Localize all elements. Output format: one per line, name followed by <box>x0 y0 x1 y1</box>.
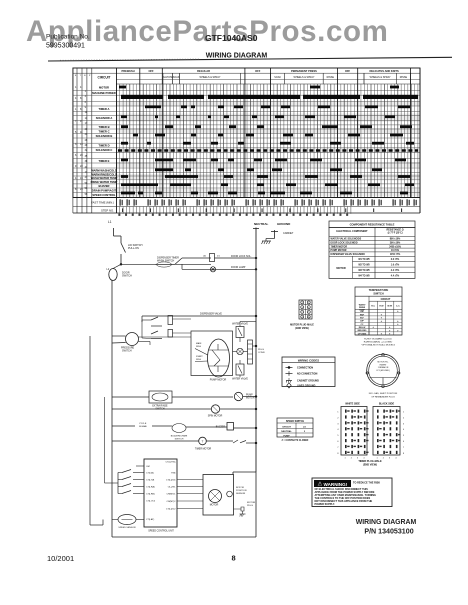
svg-text:NEUTRAL: NEUTRAL <box>281 430 292 433</box>
extra rinse switch <box>112 396 149 398</box>
neutral jog <box>233 471 256 473</box>
svg-text:CONN: CONN <box>258 352 265 354</box>
svg-text:EXTRA RINSE: EXTRA RINSE <box>152 405 168 408</box>
aux circle <box>237 348 243 354</box>
svg-text:4: 4 <box>308 307 309 309</box>
svg-text:SPEED CONTROL UNIT: SPEED CONTROL UNIT <box>148 531 174 533</box>
svg-text:W3 TO W5: W3 TO W5 <box>358 270 370 272</box>
svg-text:3: 3 <box>302 307 303 309</box>
secondary left bus <box>89 336 91 525</box>
wire main horizontal <box>121 263 211 265</box>
svg-text:7: 7 <box>302 316 303 318</box>
svg-text:1 BREAK IN: 1 BREAK IN <box>378 366 389 369</box>
svg-text:GTF1040AS0: GTF1040AS0 <box>205 33 258 43</box>
svg-text:WHEELS & SPRAY: WHEELS & SPRAY <box>199 76 220 79</box>
timer contacts <box>151 317 158 320</box>
junction L1/lid <box>120 263 122 265</box>
svg-text:WIRING DIAGRAM: WIRING DIAGRAM <box>206 53 268 60</box>
page rule <box>48 57 452 61</box>
svg-text:SPEED SENSOR: SPEED SENSOR <box>118 527 136 529</box>
svg-text:LINES GROUND: LINES GROUND <box>297 385 316 388</box>
svg-text:NEUTRAL: NEUTRAL <box>254 222 268 226</box>
svg-text:SPEED SWITCH: SPEED SWITCH <box>286 420 304 423</box>
svg-text:DISPENSER VALVE: DISPENSER VALVE <box>200 313 222 316</box>
speed sensor <box>118 515 136 525</box>
speed selector switches <box>113 264 115 495</box>
svg-text:POSITION: POSITION <box>236 490 247 492</box>
lid switch <box>121 243 126 253</box>
svg-text:MOTOR: MOTOR <box>246 398 255 400</box>
svg-text:R=REGULAR(S) +=CLOSED: R=REGULAR(S) +=CLOSED <box>364 341 393 344</box>
svg-text:LP1 (MOLDED): LP1 (MOLDED) <box>376 370 390 372</box>
timer motor <box>112 440 199 442</box>
fast time row <box>73 197 420 199</box>
svg-text:W2 TO W5: W2 TO W5 <box>358 265 370 267</box>
svg-text:POWER SUPPLY.: POWER SUPPLY. <box>315 503 336 506</box>
svg-text:CR(MT)1: CR(MT)1 <box>167 494 177 496</box>
svg-text:W-W: W-W <box>387 306 392 308</box>
svg-text:5: 5 <box>302 312 303 314</box>
chime switch <box>112 425 135 427</box>
svg-text:MOTOR: MOTOR <box>247 502 256 504</box>
svg-text:SOLENOID B: SOLENOID B <box>96 134 113 138</box>
svg-text:SPEED CONTROL: SPEED CONTROL <box>92 193 116 197</box>
svg-text:6: 6 <box>308 312 309 314</box>
svg-text:CIRCUIT: CIRCUIT <box>282 426 292 428</box>
svg-text:WHITE SIDE: WHITE SIDE <box>345 403 360 406</box>
pressure switch <box>126 333 139 346</box>
svg-text:SWITCH: SWITCH <box>175 438 184 440</box>
svg-text:FAST TIME (MIN.): FAST TIME (MIN.) <box>91 201 114 205</box>
svg-text:TEMPERATURE: TEMPERATURE <box>369 288 389 292</box>
svg-text:H-C: H-C <box>371 306 375 308</box>
svg-text:CT(LRA): CT(LRA) <box>146 486 155 489</box>
svg-text:SOLENOID C: SOLENOID C <box>96 148 113 152</box>
svg-text:C-C: C-C <box>396 306 400 308</box>
svg-text:SOAK: SOAK <box>173 76 180 79</box>
motor plug circular view <box>367 354 400 387</box>
door lock solenoid <box>210 254 215 262</box>
svg-text:H-W: H-W <box>379 306 383 308</box>
svg-text:WDG: WDG <box>196 346 201 348</box>
svg-text:TIMER D: TIMER D <box>98 144 109 148</box>
svg-text:TIMER E: TIMER E <box>99 159 110 163</box>
svg-text:NO LOAD, SHIFT POSITION: NO LOAD, SHIFT POSITION <box>369 392 398 395</box>
svg-text:SPIN MOTOR: SPIN MOTOR <box>208 416 223 418</box>
svg-text:OL-(P)1: OL-(P)1 <box>168 487 177 489</box>
timer line switch <box>233 440 238 443</box>
svg-text:COMPONENT RESISTANCE TABLE: COMPONENT RESISTANCE TABLE <box>350 223 395 227</box>
svg-text:ELECTRICAL COMPONENT: ELECTRICAL COMPONENT <box>336 230 368 233</box>
svg-text:TO REDUCE THE RISK: TO REDUCE THE RISK <box>353 482 380 485</box>
svg-text:WIRING CODES: WIRING CODES <box>298 358 319 362</box>
left column rules <box>72 68 74 213</box>
shading bands <box>116 102 420 107</box>
speed switch table <box>277 418 313 437</box>
legend no connection <box>286 373 293 375</box>
svg-text:PUMP MOTOR: PUMP MOTOR <box>210 379 227 382</box>
pump motor assembly box <box>191 331 233 376</box>
svg-text:WIRING DIAGRAM: WIRING DIAGRAM <box>356 519 417 526</box>
svg-text:BUZZER/CHIME: BUZZER/CHIME <box>171 436 188 438</box>
svg-text:CABINET: CABINET <box>283 232 294 235</box>
svg-text:CT(L)TMa: CT(L)TMa <box>166 462 177 464</box>
svg-text:OFF: OFF <box>345 69 351 73</box>
neutral bus <box>255 228 257 473</box>
pump motor circle <box>234 392 242 400</box>
door switch <box>109 269 117 281</box>
table row labels <box>73 90 420 92</box>
svg-text:CT(L)(T)2: CT(L)(T)2 <box>166 509 176 511</box>
cam marks <box>121 95 163 99</box>
svg-text:10/2001: 10/2001 <box>47 554 74 563</box>
svg-text:3.6 ±7%: 3.6 ±7% <box>391 259 399 261</box>
svg-text:CT(LOO): CT(LOO) <box>146 501 155 503</box>
step number ticks <box>119 207 121 214</box>
dispenser valve wire <box>142 315 256 317</box>
svg-text:CT(L)(T)b: CT(L)(T)b <box>166 480 176 482</box>
pump motor winding <box>208 339 230 377</box>
warning box <box>312 478 392 507</box>
svg-text:MOTOR: MOTOR <box>210 505 219 507</box>
svg-text:RINSE: RINSE <box>400 76 408 79</box>
svg-text:MACHINE POWER: MACHINE POWER <box>92 91 116 95</box>
speed control unit <box>144 459 177 527</box>
svg-text:OFF: OFF <box>148 69 154 73</box>
door lamp <box>182 268 256 270</box>
svg-text:NO CONNECTION: NO CONNECTION <box>297 373 318 376</box>
svg-text:AGITATE: AGITATE <box>163 76 173 79</box>
timer sequence chart <box>73 68 420 198</box>
svg-text:CONNECTION: CONNECTION <box>297 367 313 370</box>
svg-text:PREWASH: PREWASH <box>122 69 135 73</box>
svg-text:CIRCUIT: CIRCUIT <box>381 298 391 301</box>
svg-text:PULL-ON: PULL-ON <box>128 247 139 250</box>
svg-text:OM: OM <box>146 466 150 468</box>
svg-text:DRAIN PUMP/AGIT: DRAIN PUMP/AGIT <box>92 188 117 192</box>
svg-text:(END VIEW): (END VIEW) <box>295 327 309 330</box>
svg-text:@ 77°F (25°C): @ 77°F (25°C) <box>387 233 402 235</box>
temperature switch table <box>355 287 402 335</box>
dashed cam row <box>118 149 418 152</box>
svg-text:CT(LT)B: CT(LT)B <box>146 480 155 482</box>
svg-text:OFF: OFF <box>255 69 261 73</box>
bottom wire <box>112 536 256 538</box>
svg-text:WARNING!: WARNING! <box>324 482 348 487</box>
svg-text:1: 1 <box>302 302 303 304</box>
wire L1 lead <box>113 228 115 236</box>
drive motor box <box>203 475 234 516</box>
svg-text:SWITCH: SWITCH <box>122 350 132 353</box>
legend connection <box>286 367 293 369</box>
buzzer <box>227 423 234 431</box>
svg-text:4.4 ±7%: 4.4 ±7% <box>391 275 399 278</box>
svg-text:CABINET GROUND: CABINET GROUND <box>297 379 319 382</box>
fast time ticks <box>120 199 121 205</box>
svg-text:BUZZER: BUZZER <box>99 184 110 188</box>
svg-text:OF REMAINDER PLUG: OF REMAINDER PLUG <box>371 395 395 398</box>
svg-text:P/N 134053100: P/N 134053100 <box>364 528 413 536</box>
svg-text:RESISTANCE Ω: RESISTANCE Ω <box>386 229 403 232</box>
svg-text:SIGNAL: SIGNAL <box>139 425 148 428</box>
svg-text:WDG: WDG <box>196 359 201 361</box>
legend cabinet ground <box>286 380 292 382</box>
svg-text:8: 8 <box>308 316 309 318</box>
svg-text:SWITCH: SWITCH <box>122 275 132 278</box>
svg-text:PLUG: PLUG <box>258 349 264 351</box>
svg-text:GROUND: GROUND <box>277 222 291 226</box>
svg-text:MOTOR: MOTOR <box>99 85 109 89</box>
svg-text:WARM WASH/COLD: WARM WASH/COLD <box>91 168 117 172</box>
svg-text:CT(LRB): CT(LRB) <box>146 494 155 496</box>
svg-text:DOOR LAMP: DOOR LAMP <box>231 266 246 269</box>
svg-text:CT(O)A: CT(O)A <box>146 472 154 475</box>
neutral lower segment <box>255 472 257 537</box>
wire door lock <box>182 257 211 259</box>
svg-text:DISPENSER VALVE SOLENOID: DISPENSER VALVE SOLENOID <box>331 253 366 256</box>
svg-text:T: T <box>202 440 204 444</box>
svg-text:3450 ±10%: 3450 ±10% <box>389 245 402 248</box>
svg-text:L1: L1 <box>108 220 112 224</box>
svg-text:TIMER B: TIMER B <box>98 125 109 129</box>
svg-text:BUZZER: BUZZER <box>216 427 226 429</box>
svg-text:DELICATES AND KNITS: DELICATES AND KNITS <box>369 69 399 73</box>
svg-text:WASH WATER TEMP: WASH WATER TEMP <box>91 176 118 180</box>
svg-text:1.6 ±7%: 1.6 ±7% <box>391 265 399 267</box>
svg-text:TIMER C: TIMER C <box>98 129 109 133</box>
svg-text:RINSE WATER TEMP: RINSE WATER TEMP <box>91 180 118 184</box>
svg-text:Publication No.: Publication No. <box>46 34 90 41</box>
svg-text:CYCLE: CYCLE <box>139 423 147 425</box>
svg-text:DOOR LOCK SOL.: DOOR LOCK SOL. <box>231 255 252 258</box>
svg-text:TIMER MOTOR: TIMER MOTOR <box>195 449 212 451</box>
svg-text:WATER VALVE SOLENOIDS: WATER VALVE SOLENOIDS <box>331 238 362 241</box>
svg-text:LO: LO <box>303 426 306 428</box>
svg-text:SOLENOID A: SOLENOID A <box>96 116 113 120</box>
motor plug male <box>299 300 312 319</box>
svg-text:CR(MT)2: CR(MT)2 <box>167 501 177 503</box>
schematic <box>90 220 294 537</box>
svg-text:SENSOR: SENSOR <box>236 493 246 495</box>
svg-text:TIMER A: TIMER A <box>99 107 110 111</box>
svg-text:WATER VALVE: WATER VALVE <box>232 378 248 381</box>
drive motor <box>209 490 222 503</box>
svg-text:MOTOR: MOTOR <box>336 267 345 270</box>
svg-text:CIRCUIT: CIRCUIT <box>98 76 111 80</box>
svg-text:PLUG: PLUG <box>247 505 253 507</box>
svg-text:1150 ±7%: 1150 ±7% <box>390 254 401 256</box>
svg-text:5995300491: 5995300491 <box>46 42 85 49</box>
svg-text:# = CONTACTS CLOSED: # = CONTACTS CLOSED <box>282 439 309 442</box>
component resistance table <box>329 221 415 227</box>
ground chassis <box>274 230 276 239</box>
legend earth ground <box>287 383 291 388</box>
svg-text:CT(LAT): CT(LAT) <box>146 518 154 521</box>
svg-text:BLACK SIDE: BLACK SIDE <box>379 403 395 406</box>
svg-text:W1 TO W5: W1 TO W5 <box>358 259 370 261</box>
svg-text:ROTOR: ROTOR <box>236 487 244 489</box>
svg-text:SWITCH: SWITCH <box>373 292 383 296</box>
svg-text:INSERT: INSERT <box>380 364 388 366</box>
svg-text:MOTOR PLL: MOTOR PLL <box>378 362 389 364</box>
water valve (cold) <box>236 364 244 375</box>
grid verticals <box>115 84 117 198</box>
spin solenoid <box>112 408 211 410</box>
svg-text:REGULAR: REGULAR <box>197 69 210 73</box>
svg-text:W4 TO W5: W4 TO W5 <box>358 275 370 278</box>
wiring codes box <box>282 357 335 387</box>
svg-text:WHEELS & SPRAY: WHEELS & SPRAY <box>293 76 314 79</box>
svg-text:START: START <box>196 355 203 358</box>
left bus <box>111 281 113 538</box>
svg-text:STEP NO.: STEP NO. <box>101 209 114 213</box>
svg-text:MAIN: MAIN <box>196 342 202 345</box>
svg-text:WHEELS & SPRAY: WHEELS & SPRAY <box>370 76 391 79</box>
svg-text:2: 2 <box>308 302 309 304</box>
svg-text:PERMANENT PRESS: PERMANENT PRESS <box>291 69 317 73</box>
svg-text:RINSE: RINSE <box>327 76 335 79</box>
svg-text:PUMP: PUMP <box>283 435 290 437</box>
svg-text:WARM RINSE/COLD: WARM RINSE/COLD <box>91 172 117 176</box>
svg-text:2.2 ±7%: 2.2 ±7% <box>391 270 399 272</box>
svg-text:(END VIEW): (END VIEW) <box>363 464 377 467</box>
tertiary left bus <box>104 397 106 483</box>
plug connector <box>248 340 253 364</box>
svg-text:H=HOT W=WARM C=COLD: H=HOT W=WARM C=COLD <box>364 338 392 341</box>
svg-text:*OPTIONAL/NOT IN ALL MODELS: *OPTIONAL/NOT IN ALL MODELS <box>361 344 396 347</box>
svg-text:SOAK: SOAK <box>274 76 281 79</box>
svg-text:8: 8 <box>232 554 236 563</box>
